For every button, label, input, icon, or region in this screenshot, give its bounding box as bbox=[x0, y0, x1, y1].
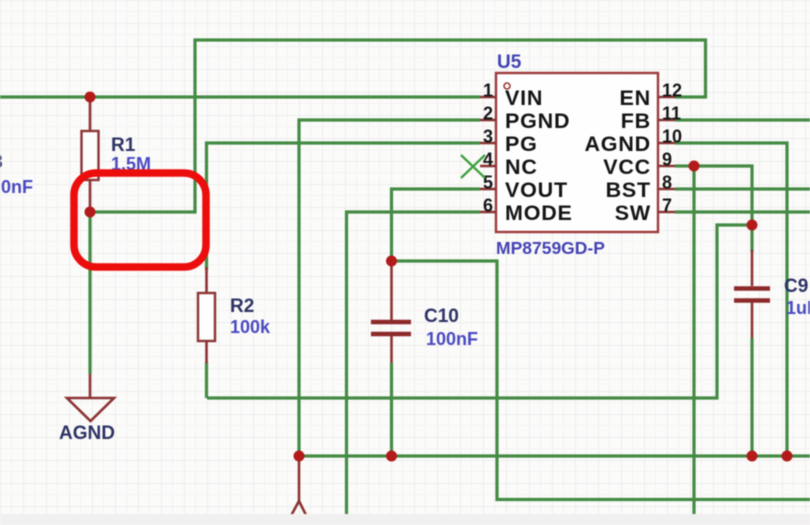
wire EN net: R1 bottom up over the top to pin 12 bbox=[90, 40, 706, 212]
node junction VCC branch bbox=[689, 161, 700, 172]
pin 9 VCC bbox=[603, 150, 675, 180]
svg-text:C10: C10 bbox=[424, 306, 459, 327]
wire PGND pin2 down to ground rail bbox=[299, 120, 480, 456]
wire VCC to R2 bottom bbox=[207, 225, 752, 398]
svg-text:NC: NC bbox=[505, 155, 538, 179]
svg-text:0nF: 0nF bbox=[1, 177, 33, 197]
svg-text:R2: R2 bbox=[230, 296, 254, 317]
svg-text:1uF: 1uF bbox=[786, 298, 810, 318]
svg-text:PG: PG bbox=[505, 132, 538, 156]
svg-text:MP8759GD-P: MP8759GD-P bbox=[496, 238, 605, 258]
wire PG pin3 to R2 top bbox=[207, 143, 481, 270]
pin 2 PGND bbox=[480, 104, 570, 134]
resistor R2 bbox=[198, 267, 271, 363]
capacitor C8 (clipped at left edge) bbox=[0, 152, 33, 197]
wire SW pin7 to right edge bbox=[675, 210, 810, 213]
node junction R1 bottom / EN bbox=[85, 207, 96, 218]
node junction R1 top on VIN bbox=[85, 92, 96, 103]
wire ground rail y=456 bbox=[299, 454, 810, 457]
node junction C9 top bbox=[747, 220, 758, 231]
svg-text:8: 8 bbox=[0, 152, 3, 173]
svg-text:R1: R1 bbox=[111, 135, 136, 156]
svg-text:3: 3 bbox=[483, 127, 493, 147]
ground AGND symbol bbox=[59, 374, 115, 444]
svg-text:11: 11 bbox=[662, 104, 681, 124]
wire VCC branch down off-screen bbox=[692, 166, 695, 525]
op-amp U5 IC body MP8759GD-P bbox=[496, 52, 658, 258]
svg-text:5: 5 bbox=[483, 173, 493, 193]
pin 7 SW bbox=[615, 196, 675, 226]
svg-text:C9: C9 bbox=[784, 276, 808, 297]
wire AGND pin10 down to ground rail bbox=[675, 143, 787, 456]
wire R2 bottom lead bbox=[205, 362, 208, 398]
no-connect X on pin 4 bbox=[461, 155, 485, 178]
wire VIN rail y=97 bbox=[0, 95, 480, 98]
wire FB pin11 to right edge bbox=[675, 118, 810, 121]
svg-text:10: 10 bbox=[662, 127, 682, 147]
pin 12 EN bbox=[620, 81, 683, 111]
pin 10 AGND bbox=[584, 127, 682, 157]
capacitor C10 bbox=[371, 263, 478, 456]
svg-text:100k: 100k bbox=[230, 317, 271, 337]
svg-text:EN: EN bbox=[620, 86, 651, 110]
svg-text:FB: FB bbox=[621, 109, 651, 133]
svg-text:BST: BST bbox=[606, 178, 651, 202]
wire BST pin8 to right edge bbox=[675, 187, 810, 190]
pin 4 NC bbox=[480, 150, 538, 180]
svg-text:6: 6 bbox=[483, 196, 493, 216]
pin 1 VIN bbox=[480, 81, 543, 111]
node junction PGND rail bbox=[294, 451, 305, 462]
wire R1 bottom to AGND bbox=[88, 212, 91, 374]
pin 5 VOUT bbox=[480, 173, 568, 203]
capacitor C9 bbox=[734, 225, 810, 456]
supply symbol below ground rail (clipped) bbox=[286, 458, 311, 525]
svg-text:VCC: VCC bbox=[603, 155, 651, 179]
node junction C9 bottom rail bbox=[747, 451, 758, 462]
svg-text:PGND: PGND bbox=[505, 109, 570, 133]
node junction VOUT / C10 bbox=[386, 256, 397, 267]
svg-text:MODE: MODE bbox=[505, 201, 573, 225]
node junction AGND wire rail bbox=[782, 451, 793, 462]
bottom gray band bbox=[0, 514, 810, 525]
svg-text:2: 2 bbox=[483, 104, 493, 124]
svg-text:AGND: AGND bbox=[584, 132, 651, 156]
svg-text:U5: U5 bbox=[497, 52, 522, 73]
svg-text:AGND: AGND bbox=[59, 423, 115, 444]
svg-text:VOUT: VOUT bbox=[505, 178, 568, 202]
resistor R1 bbox=[82, 100, 152, 212]
pin 3 PG bbox=[480, 127, 538, 157]
pin 11 FB bbox=[621, 104, 681, 134]
wire VOUT rail to right edge bbox=[392, 261, 810, 500]
red highlight annotation box bbox=[74, 173, 206, 267]
svg-text:7: 7 bbox=[662, 196, 672, 216]
pin 6 MODE bbox=[480, 196, 573, 226]
svg-text:12: 12 bbox=[662, 81, 682, 101]
svg-text:100nF: 100nF bbox=[426, 329, 478, 349]
pin 8 BST bbox=[606, 173, 675, 203]
wire VOUT pin5 to node bbox=[392, 189, 481, 261]
wire MODE pin6 down off-screen bbox=[347, 212, 481, 525]
svg-text:4: 4 bbox=[483, 150, 493, 170]
svg-text:SW: SW bbox=[615, 201, 651, 225]
svg-text:9: 9 bbox=[662, 150, 672, 170]
svg-text:1: 1 bbox=[483, 81, 493, 101]
wire VCC pin9 to C9 top bbox=[675, 166, 752, 225]
node junction C10 bottom rail bbox=[386, 451, 397, 462]
svg-text:8: 8 bbox=[662, 173, 672, 193]
svg-text:VIN: VIN bbox=[505, 86, 543, 110]
